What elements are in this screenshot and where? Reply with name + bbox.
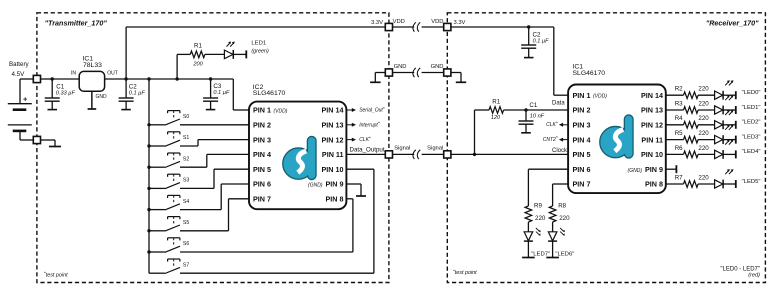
svg-text:PIN 13: PIN 13 xyxy=(322,121,344,130)
svg-text:PIN 6: PIN 6 xyxy=(573,165,591,174)
svg-text:PIN 8: PIN 8 xyxy=(645,180,663,189)
svg-text:(red): (red) xyxy=(748,273,760,279)
svg-text:78L33: 78L33 xyxy=(83,62,102,69)
svg-text:IN: IN xyxy=(71,71,76,77)
svg-text:Battery: Battery xyxy=(9,61,30,68)
svg-text:PIN 10: PIN 10 xyxy=(641,150,663,159)
svg-text:R2: R2 xyxy=(675,86,683,93)
svg-text:3.3V: 3.3V xyxy=(371,20,383,26)
svg-text:"LED0 - LED7": "LED0 - LED7" xyxy=(720,266,760,272)
svg-text:PIN 14: PIN 14 xyxy=(322,106,344,115)
svg-text:S2: S2 xyxy=(183,156,189,162)
svg-text:120: 120 xyxy=(491,115,501,121)
svg-text:VDD: VDD xyxy=(393,19,405,25)
svg-text:"LED3": "LED3" xyxy=(742,134,761,140)
svg-text:200: 200 xyxy=(192,62,203,68)
svg-text:Data: Data xyxy=(552,100,565,106)
svg-text:CNT2*: CNT2* xyxy=(543,135,558,143)
svg-text:S6: S6 xyxy=(183,241,189,247)
svg-text:S1: S1 xyxy=(183,135,189,141)
svg-text:S4: S4 xyxy=(183,199,189,205)
svg-text:C1: C1 xyxy=(529,102,537,109)
svg-text:PIN 7: PIN 7 xyxy=(573,180,591,189)
svg-text:PIN 2: PIN 2 xyxy=(573,106,591,115)
svg-text:220: 220 xyxy=(698,86,709,93)
svg-text:PIN 1: PIN 1 xyxy=(573,91,591,100)
svg-text:0.1 µF: 0.1 µF xyxy=(533,39,550,45)
svg-text:SLG46170: SLG46170 xyxy=(253,90,286,97)
svg-text:(GND): (GND) xyxy=(308,183,323,189)
svg-text:PIN 12: PIN 12 xyxy=(641,121,663,130)
svg-text:PIN 10: PIN 10 xyxy=(322,165,344,174)
svg-text:"LED7": "LED7" xyxy=(531,251,550,257)
svg-text:PIN 8: PIN 8 xyxy=(326,195,344,204)
svg-text:PIN 11: PIN 11 xyxy=(322,150,344,159)
svg-text:"LED0": "LED0" xyxy=(742,90,761,96)
svg-text:R6: R6 xyxy=(675,145,683,152)
svg-text:*test point: *test point xyxy=(453,268,477,276)
svg-text:PIN 12: PIN 12 xyxy=(322,135,344,144)
svg-text:"LED2": "LED2" xyxy=(742,120,761,126)
svg-text:R8: R8 xyxy=(558,203,566,210)
svg-text:Serial_Out*: Serial_Out* xyxy=(359,106,385,114)
svg-text:R1: R1 xyxy=(492,99,500,106)
svg-text:Signal: Signal xyxy=(427,146,443,152)
svg-text:S5: S5 xyxy=(183,220,189,226)
svg-text:0.33 µF: 0.33 µF xyxy=(56,90,76,96)
svg-text:SLG46170: SLG46170 xyxy=(573,70,606,77)
svg-text:Data_Output: Data_Output xyxy=(350,147,385,154)
svg-text:R7: R7 xyxy=(675,174,683,181)
svg-text:220: 220 xyxy=(698,100,709,107)
svg-text:R5: R5 xyxy=(675,130,683,137)
svg-text:"LED1": "LED1" xyxy=(742,105,761,111)
svg-text:PIN 11: PIN 11 xyxy=(641,135,663,144)
svg-text:PIN 9: PIN 9 xyxy=(326,180,344,189)
svg-text:PIN 3: PIN 3 xyxy=(253,135,271,144)
svg-text:PIN 2: PIN 2 xyxy=(253,121,271,130)
svg-text:S7: S7 xyxy=(183,262,189,268)
svg-text:(GND): (GND) xyxy=(628,168,643,174)
svg-text:GND: GND xyxy=(96,94,108,100)
svg-text:220: 220 xyxy=(698,145,709,152)
svg-text:PIN 13: PIN 13 xyxy=(641,106,663,115)
svg-text:R9: R9 xyxy=(534,203,542,210)
svg-text:"Transmitter_170": "Transmitter_170" xyxy=(45,18,108,27)
svg-text:4.5V: 4.5V xyxy=(12,71,26,78)
svg-text:PIN 5: PIN 5 xyxy=(253,165,271,174)
svg-text:(VDD): (VDD) xyxy=(593,94,607,100)
svg-text:GND: GND xyxy=(394,64,407,70)
svg-text:220: 220 xyxy=(698,115,709,122)
svg-text:+: + xyxy=(23,95,28,104)
svg-text:C2: C2 xyxy=(129,83,137,90)
svg-text:"LED5": "LED5" xyxy=(742,179,761,185)
svg-text:PIN 6: PIN 6 xyxy=(253,180,271,189)
svg-text:220: 220 xyxy=(698,174,709,181)
svg-text:CLK*: CLK* xyxy=(359,135,371,143)
svg-text:PIN 4: PIN 4 xyxy=(573,135,591,144)
svg-text:LED1: LED1 xyxy=(251,40,266,46)
svg-text:PIN 1: PIN 1 xyxy=(253,106,271,115)
svg-text:S3: S3 xyxy=(183,178,189,184)
svg-text:220: 220 xyxy=(559,215,570,222)
svg-text:10 nF: 10 nF xyxy=(530,113,545,119)
svg-text:S0: S0 xyxy=(183,114,189,120)
svg-text:PIN 9: PIN 9 xyxy=(645,165,663,174)
svg-text:220: 220 xyxy=(535,215,546,222)
svg-text:PIN 5: PIN 5 xyxy=(573,150,591,159)
svg-text:R1: R1 xyxy=(194,42,202,49)
svg-text:C2: C2 xyxy=(533,31,541,38)
svg-text:*test point: *test point xyxy=(44,271,68,279)
svg-text:CLK*: CLK* xyxy=(546,120,558,128)
svg-text:OUT: OUT xyxy=(107,71,118,77)
svg-text:VDD: VDD xyxy=(431,19,443,25)
svg-text:Clock: Clock xyxy=(552,148,568,154)
svg-text:3.3V: 3.3V xyxy=(454,20,466,26)
svg-text:GND: GND xyxy=(431,64,444,70)
svg-text:PIN 4: PIN 4 xyxy=(253,150,271,159)
svg-text:220: 220 xyxy=(698,130,709,137)
svg-text:PIN 7: PIN 7 xyxy=(253,195,271,204)
svg-text:"LED4": "LED4" xyxy=(742,149,761,155)
svg-text:"Receiver_170": "Receiver_170" xyxy=(706,18,759,27)
svg-text:"LED6": "LED6" xyxy=(555,251,574,257)
svg-text:PIN 3: PIN 3 xyxy=(573,121,591,130)
svg-text:PIN 14: PIN 14 xyxy=(641,91,663,100)
svg-text:Signal: Signal xyxy=(394,146,410,152)
svg-text:(VDD): (VDD) xyxy=(274,108,288,114)
svg-text:0.1 µF: 0.1 µF xyxy=(213,90,230,96)
svg-text:R3: R3 xyxy=(675,100,683,107)
svg-text:Interrupt*: Interrupt* xyxy=(359,121,380,129)
svg-text:C3: C3 xyxy=(213,83,221,90)
svg-text:0.1 µF: 0.1 µF xyxy=(129,90,146,96)
svg-text:R4: R4 xyxy=(675,115,683,122)
svg-text:C1: C1 xyxy=(56,83,64,90)
svg-text:(green): (green) xyxy=(251,48,269,54)
